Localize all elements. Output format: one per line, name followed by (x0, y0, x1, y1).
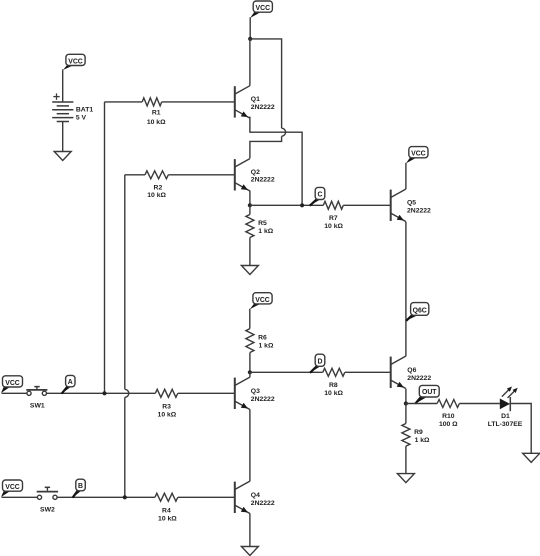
junction (node B / R2 column) (123, 495, 127, 499)
wire (VCC to Q5 collector) (405, 163, 407, 189)
svg-text:VCC: VCC (255, 297, 270, 304)
junction (node OUT) (404, 401, 408, 405)
wire (R2 to node B column, lower) (124, 397, 126, 497)
net label Q6C (406, 303, 429, 321)
svg-text:R10: R10 (442, 413, 455, 420)
wire (Q3 emitter to Q4 collector) (249, 409, 251, 481)
node label D (310, 354, 325, 373)
svg-text:10 kΩ: 10 kΩ (147, 119, 166, 126)
resistor R4 10 kohm (155, 493, 235, 522)
svg-text:2N2222: 2N2222 (251, 396, 275, 403)
svg-text:Q2: Q2 (251, 169, 260, 176)
svg-text:D1: D1 (501, 413, 510, 420)
wire (Q1 emitter to node C) (250, 117, 302, 206)
svg-text:VCC: VCC (256, 5, 271, 12)
transistor Q6 (2N2222) (391, 356, 432, 388)
svg-text:2N2222: 2N2222 (407, 208, 431, 215)
wire (node D row to R8) (250, 371, 323, 373)
wire (Q4 emitter to ground) (249, 513, 251, 546)
svg-text:R9: R9 (414, 429, 423, 436)
svg-text:R2: R2 (154, 184, 163, 191)
wire (OUT node to R10) (406, 403, 437, 405)
wire (VCC to SW1) (2, 392, 27, 394)
svg-text:A: A (68, 379, 73, 386)
svg-text:LTL-307EE: LTL-307EE (488, 421, 523, 428)
wire hop (over Q1 emitter wire) (282, 128, 286, 136)
switch SW2 (pushbutton) (37, 487, 58, 513)
svg-text:1 kΩ: 1 kΩ (258, 228, 273, 235)
svg-text:SW2: SW2 (40, 507, 55, 514)
ground (right of D1) (523, 453, 540, 462)
resistor R6 1 kohm (246, 309, 274, 373)
ground (below Q4) (241, 547, 258, 556)
svg-text:Q1: Q1 (251, 96, 260, 103)
svg-text:Q6: Q6 (407, 367, 416, 374)
wire (SW1 to node A) (47, 392, 156, 394)
svg-text:R5: R5 (258, 220, 267, 227)
svg-text:R3: R3 (162, 404, 171, 411)
junction (node C at Q2 emitter / R5) (248, 203, 252, 207)
svg-text:VCC: VCC (5, 484, 20, 491)
junction (Q1 collector / VCC node) (248, 37, 252, 41)
resistor R2 10 kohm (125, 171, 235, 199)
ground (below BAT1) (54, 152, 71, 161)
svg-text:2N2222: 2N2222 (407, 375, 431, 382)
power label VCC (above R6) (250, 293, 272, 310)
svg-text:VCC: VCC (68, 58, 83, 65)
resistor R9 1 kohm (402, 404, 430, 474)
svg-text:R4: R4 (162, 508, 171, 515)
svg-text:Q3: Q3 (251, 388, 260, 395)
wire (VCC node toward Q2 collector, upper part) (250, 39, 281, 128)
svg-text:VCC: VCC (411, 151, 426, 158)
power label VCC (battery) (63, 54, 85, 70)
resistor R7 10 kohm (323, 201, 390, 230)
wire (R2 to node B column, upper) (124, 175, 126, 389)
svg-text:Q5: Q5 (407, 199, 416, 206)
svg-text:D: D (318, 359, 323, 366)
LED D1 LTL-307EE (488, 387, 523, 428)
svg-text:OUT: OUT (422, 389, 437, 396)
svg-text:R7: R7 (329, 215, 338, 222)
wire (node C row, left of R7) (250, 204, 323, 206)
node label B (73, 479, 86, 498)
wire (Q3 collector to node D) (249, 372, 251, 377)
svg-text:Q6C: Q6C (413, 308, 427, 315)
transistor Q2 (2N2222) (235, 159, 275, 191)
wire (battery - to ground) (62, 122, 64, 152)
svg-text:2N2222: 2N2222 (251, 500, 275, 507)
junction (node C / Q1 emitter branch) (300, 203, 304, 207)
wire (LED cathode to right column) (510, 404, 531, 454)
wire (SW2 to node B) (57, 496, 155, 498)
battery BAT1 5 V (52, 93, 93, 121)
resistor R5 1 kohm (246, 205, 274, 265)
svg-text:C: C (318, 192, 323, 199)
junction (node D: R6 / Q3 collector / R8) (248, 370, 252, 374)
svg-text:10 kΩ: 10 kΩ (147, 192, 166, 199)
svg-text:SW1: SW1 (30, 402, 45, 409)
power label VCC (SW1) (1, 376, 23, 393)
svg-text:10 kΩ: 10 kΩ (158, 411, 177, 418)
transistor Q5 (2N2222) (391, 189, 431, 221)
svg-text:1 kΩ: 1 kΩ (415, 437, 430, 444)
wire (Q5 emitter to Q6 collector, net Q6C) (405, 222, 407, 357)
power label VCC (top) (250, 1, 272, 18)
wire hop (B column over A row) (125, 389, 129, 397)
wire (Q2 emitter down to node C) (249, 191, 251, 206)
wire (VCC label to top junction) (249, 17, 251, 39)
node label OUT (415, 385, 439, 403)
resistor R1 10 kohm (105, 98, 235, 126)
resistor R10 100 ohm (437, 400, 500, 428)
svg-text:5 V: 5 V (76, 114, 87, 121)
wire (VCC to battery +) (62, 69, 64, 102)
svg-text:10 kΩ: 10 kΩ (324, 223, 343, 230)
power label VCC (Q5 collector) (406, 147, 428, 164)
svg-text:B: B (78, 483, 83, 490)
transistor Q4 (2N2222) (235, 481, 275, 513)
svg-text:Q4: Q4 (251, 492, 260, 499)
ground (below R5) (241, 266, 258, 275)
resistor R8 10 kohm (323, 368, 391, 397)
wire (R1 to node A column) (104, 102, 106, 393)
svg-text:100 Ω: 100 Ω (439, 421, 458, 428)
svg-text:R1: R1 (152, 110, 161, 117)
transistor Q3 (2N2222) (235, 377, 275, 409)
svg-text:R8: R8 (329, 382, 338, 389)
svg-text:2N2222: 2N2222 (251, 104, 275, 111)
ground (below R9) (397, 474, 414, 483)
transistor Q1 (2N2222) (235, 86, 275, 118)
wire (VCC to SW2) (2, 496, 38, 498)
junction (node A / R1 column) (102, 391, 106, 395)
power label VCC (SW2) (1, 480, 23, 497)
svg-text:R6: R6 (258, 335, 267, 342)
switch SW1 (pushbutton) (26, 387, 47, 410)
svg-text:2N2222: 2N2222 (251, 177, 275, 184)
node label A (62, 375, 75, 393)
node label C (310, 187, 325, 205)
resistor R3 10 kohm (155, 389, 235, 418)
wire (Q6 emitter to OUT node) (405, 389, 407, 404)
svg-text:1 kΩ: 1 kΩ (259, 343, 274, 350)
svg-text:VCC: VCC (5, 380, 20, 387)
wire (VCC node toward Q2 collector, lower part) (250, 136, 282, 158)
svg-text:10 kΩ: 10 kΩ (158, 515, 177, 522)
svg-text:10 kΩ: 10 kΩ (324, 390, 343, 397)
svg-text:BAT1: BAT1 (76, 107, 93, 114)
wire (junction to Q1 collector) (249, 39, 251, 86)
